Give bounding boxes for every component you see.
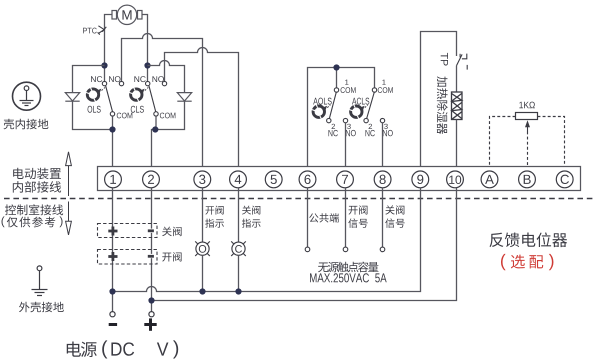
letter O in lamp [199, 245, 206, 253]
OLS NC contact [102, 81, 106, 85]
arrow up (internal wiring) [66, 152, 72, 196]
label 开阀指示 line1 [205, 206, 223, 215]
label COM (AQLS) [341, 87, 356, 93]
ACLS NO contact [380, 118, 384, 122]
heater element (rect with zigzag) [452, 92, 463, 120]
contact circle 公共端 [305, 247, 310, 252]
contact circle 开阀信号 [343, 247, 348, 252]
dashed wire: pot right end to terminal C [538, 117, 565, 167]
terminal A [481, 171, 498, 188]
plus mark (开阀) [108, 252, 117, 261]
minus mark (关阀) [148, 229, 154, 232]
OLS NO contact [119, 81, 123, 85]
label ) of 电源 [173, 340, 178, 358]
label ( of 电源 [102, 340, 107, 358]
label ) of 仅供参考 [59, 216, 62, 227]
auxiliary switch ACLS cam [349, 105, 368, 119]
wire: terminal 7 to open-signal contact [345, 188, 347, 247]
label 电动装置 [13, 168, 61, 180]
wire: AQLS COM drop [336, 68, 338, 88]
dashed wire: pot wiper to terminal B [527, 132, 529, 167]
label 关阀信号 line2 [385, 218, 404, 227]
terminal 6 number [304, 175, 310, 184]
switch CLS arm COM->NC [149, 86, 156, 112]
node: OLS COM junction [109, 126, 115, 132]
potentiometer R (1K ohm) body [516, 113, 538, 120]
label 1KΩ [519, 102, 535, 109]
label 2 (ACLS) [369, 124, 372, 129]
terminal 3 [194, 171, 211, 188]
label NO (AQLS) [346, 130, 356, 136]
terminal 1 [105, 171, 122, 188]
OLS COM contact [110, 112, 114, 116]
ground symbol: internal (circle) [13, 82, 41, 110]
node: minus bus at lamp O [199, 288, 205, 294]
wire: TP to heater [456, 66, 458, 92]
terminal 8 [374, 171, 391, 188]
label 开阀 (box2) [162, 252, 181, 261]
label 公共端 [309, 213, 339, 222]
indicator lamp C (close) [231, 241, 246, 256]
label 内部接线 [13, 181, 61, 193]
terminal 3 number [199, 175, 205, 184]
CLS NC contact [146, 81, 150, 85]
wire: terminal 2 drop above 关阀 box [151, 188, 153, 229]
wire: terminal 1 drop between polarity marks [112, 235, 114, 252]
terminal B number [524, 175, 531, 184]
label 3 (AQLS) [347, 124, 351, 129]
label NC (CLS) [134, 76, 145, 82]
switch ACLS arm COM->NC [367, 92, 375, 118]
wire: CLS node over NO riser to diode D2 [148, 61, 185, 93]
wire: heater to terminal 10 [456, 120, 458, 172]
motor M [112, 5, 142, 24]
label 2 (AQLS) [332, 124, 335, 129]
label 关阀指示 line1 [242, 206, 260, 215]
label NC (AQLS) [328, 130, 337, 136]
label 1 (ACLS) [382, 80, 385, 85]
wire: terminal 2 drop between polarity marks [151, 233, 153, 254]
diode D2 (parallel to CLS) [177, 93, 191, 102]
wire: lamp C to minus bus [238, 255, 240, 291]
dashed wire: pot left end to terminal A [490, 117, 516, 167]
dashed box: 开阀 polarity [98, 250, 158, 265]
label NC (ACLS) [365, 130, 374, 136]
wire: terminal 9 riser to heater branch [421, 32, 457, 172]
terminal 1 number [110, 175, 116, 184]
label 开阀信号 line2 [348, 218, 367, 227]
thermal protector TP contact [457, 54, 468, 70]
label 电源 [67, 341, 97, 357]
wire: terminal 6 to common contact [307, 188, 309, 247]
bold plus sign [144, 318, 156, 330]
AQLS NO contact [343, 118, 347, 122]
supply terminal plus [149, 312, 154, 317]
wire: ACLS NO to terminal 8 [382, 123, 384, 171]
dashed separator line internal/external wiring [4, 198, 595, 200]
label 1 (AQLS) [345, 80, 348, 85]
label 选配 [511, 255, 543, 269]
label TP (rotated) [441, 53, 448, 66]
CLS NO contact [162, 81, 166, 85]
terminal C number [561, 175, 569, 184]
label ) of 选配 [549, 254, 554, 270]
AQLS NC contact [327, 118, 331, 122]
label 开阀信号 line1 [349, 205, 368, 214]
label COM (ACLS) [378, 87, 393, 93]
label 无源触点容量 [318, 262, 378, 273]
wire: 关阀指示 lamp drop from terminal 4 [238, 188, 240, 242]
terminal 10 number [449, 176, 461, 184]
wire: OLS NO riser over motor lead to terminal 3 [122, 34, 203, 172]
label PTC [83, 28, 97, 34]
wire: AQLS NO to terminal 7 [345, 123, 347, 171]
ground symbol: external shell [32, 266, 48, 296]
terminal 9 number [417, 175, 423, 184]
wire: OLS COM down to terminal 1 [112, 116, 114, 171]
PTC thermal element [98, 26, 107, 35]
label M (motor) [122, 10, 131, 19]
arrow down (control-room wiring) [66, 202, 72, 235]
label NO (ACLS) [383, 130, 393, 136]
wire: CLS NO riser over terminal-3 line to terminal 4 [165, 48, 239, 172]
terminal 6 [299, 171, 316, 188]
terminal 7 [337, 171, 354, 188]
CLS COM contact [154, 112, 158, 116]
terminal 5 [265, 171, 282, 188]
ACLS COM contact [372, 88, 376, 92]
potentiometer wiper arrow [525, 120, 530, 131]
plus mark (关阀) [108, 227, 117, 236]
label COM (CLS) [160, 113, 176, 119]
wire: motor left lead down through PTC to OLS NC [105, 15, 113, 82]
terminal 2 [143, 171, 160, 188]
label OLS [88, 106, 101, 113]
wire: motor right lead down to CLS NC [142, 15, 148, 82]
terminal 4 number [235, 175, 242, 184]
diode D1 (parallel to OLS) [65, 93, 79, 102]
terminal 2 number [148, 175, 154, 184]
label AQLS [313, 98, 331, 107]
terminal 9 [412, 171, 429, 188]
node: CLS junction [144, 62, 150, 68]
label NO (OLS) [109, 76, 120, 82]
node: minus bus at lamp C [235, 288, 241, 294]
node: COM bus junction [333, 64, 339, 70]
wire: terminal 8 to close-signal contact [382, 188, 384, 247]
supply terminal minus [110, 312, 115, 317]
minus mark (开阀) [148, 255, 154, 258]
wire: terminal 2 drop to plus supply [151, 258, 153, 311]
wire: terminal 6 riser and COM bus of AQLS/ACLS [308, 68, 375, 172]
terminal 8 number [380, 175, 386, 184]
label 反馈电位器 [489, 232, 567, 247]
label 控制室接线 [5, 204, 63, 215]
node: CLS COM junction [152, 126, 158, 132]
label NO (CLS) [152, 76, 163, 82]
wire: minus bus from terminal 9 [113, 188, 421, 292]
wire: plus bus from terminal 10 [152, 188, 457, 301]
label DC [111, 342, 134, 355]
label 外壳接地 [19, 302, 64, 313]
AQLS COM contact [334, 88, 338, 92]
wire: diode D1 to OLS COM node [73, 101, 113, 129]
terminal A number [485, 175, 494, 184]
indicator lamp O (open) [195, 241, 210, 256]
terminal 7 number [342, 175, 348, 184]
wire: OLS node to diode D1 branch [73, 66, 105, 93]
limit switch CLS cam [129, 87, 148, 101]
switch OLS arm COM->NC [106, 86, 113, 112]
label ( of 选配 [501, 254, 506, 270]
ACLS NC contact [364, 118, 368, 122]
wire: terminal 1 drop to minus supply [112, 261, 114, 312]
limit switch OLS cam [86, 87, 105, 101]
terminal C [556, 171, 573, 188]
node: plus bus at terminal-2 drop [148, 297, 154, 303]
label 加热除湿器 (rotated) [437, 76, 448, 134]
terminal 5 number [271, 175, 277, 184]
dashed box: 关阀 polarity [98, 224, 158, 238]
terminal B [519, 171, 536, 188]
label MAX.250VAC 5A [310, 273, 387, 282]
label COM (OLS) [117, 113, 133, 119]
letter C in lamp [235, 245, 242, 253]
label CLS [131, 106, 144, 113]
bold minus sign [109, 323, 117, 326]
label 3 (ACLS) [384, 124, 388, 129]
label 壳内接地 [4, 119, 49, 130]
label V [157, 343, 169, 356]
label 关阀 (box1) [162, 227, 181, 237]
label ( of 仅供参考 [2, 216, 5, 227]
terminal 10 [447, 171, 464, 188]
wire: CLS COM down to terminal 2 [152, 116, 157, 171]
switch AQLS arm COM->NC [329, 92, 336, 118]
label 关阀信号 line1 [385, 205, 404, 214]
label 关阀指示 line2 [242, 219, 261, 228]
label 仅供参考 [7, 217, 55, 228]
wire: lamp O to minus bus [202, 255, 204, 291]
auxiliary switch AQLS cam [312, 105, 331, 119]
node: minus bus at terminal-1 drop [109, 288, 115, 294]
wire: diode D2 to CLS COM node [156, 101, 185, 129]
node: OLS junction [101, 62, 107, 68]
contact circle 关阀信号 [380, 247, 385, 252]
label NC (OLS) [91, 76, 102, 82]
label ACLS [352, 98, 369, 105]
wire: terminal 1 drop above 关阀 box [112, 188, 114, 227]
terminal 4 [230, 171, 247, 188]
terminal strip box [98, 167, 581, 191]
label 开阀指示 line2 [205, 219, 224, 228]
wire: 开阀指示 lamp drop from terminal 3 [202, 188, 204, 242]
